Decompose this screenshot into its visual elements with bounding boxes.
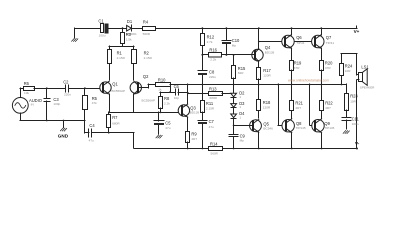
svg-text:R5: R5 [92, 96, 98, 101]
wire Q2 base to R10 [138, 84, 156, 88]
wire Q1 emitter to tail [109, 94, 111, 112]
svg-text:4R7: 4R7 [325, 106, 331, 110]
transistor Q8 TIP145 [282, 119, 306, 133]
svg-text:Q4: Q4 [265, 45, 271, 50]
capacitor C9 [229, 133, 246, 149]
wire Q6 emitter to R19 [291, 48, 293, 60]
wire R12 bottom / R16 junction [202, 46, 210, 70]
wire Q7 emitter to R20 [321, 48, 323, 60]
svg-text:R1: R1 [117, 51, 123, 56]
svg-text:47R: 47R [325, 66, 331, 70]
wire Q4 to Q6 base [259, 41, 285, 43]
svg-text:10p: 10p [174, 96, 179, 100]
resistor R4 560R [143, 19, 156, 35]
node Q5 base tap [233, 125, 235, 127]
svg-text:BD139: BD139 [265, 51, 275, 55]
wire Q8 emitter to bottom rail [291, 133, 293, 149]
svg-text:C1: C1 [98, 18, 104, 23]
wire Q2 emitter down to base line [133, 94, 135, 112]
svg-text:10R: 10R [350, 99, 356, 103]
ground (top-left, before C1) [72, 28, 78, 42]
capacitor C11 100n [342, 110, 360, 129]
wire input bottom rail [20, 110, 85, 133]
transistor Q4 BD139 [252, 45, 275, 62]
svg-text:SPEAKER: SPEAKER [360, 86, 375, 90]
svg-text:LS1: LS1 [361, 65, 369, 70]
svg-text:220u: 220u [209, 75, 216, 79]
svg-text:C2: C2 [63, 79, 69, 84]
svg-text:1.5k: 1.5k [126, 38, 132, 42]
wire R1 to Q1 collector [109, 64, 111, 80]
svg-text:1k: 1k [158, 88, 162, 92]
svg-text:100n: 100n [352, 122, 359, 126]
svg-text:R6: R6 [24, 81, 30, 86]
wire R10 to C6/R8 [160, 84, 175, 93]
svg-text:R24: R24 [345, 64, 353, 69]
svg-text:120R: 120R [263, 73, 271, 77]
resistor R3 1.5k [121, 28, 133, 44]
transistor Q9 TIP145 [312, 119, 335, 133]
wire input top line [34, 88, 65, 90]
svg-text:R9: R9 [191, 131, 197, 136]
svg-text:C8: C8 [209, 69, 215, 74]
svg-text:V-: V- [355, 141, 360, 146]
svg-text:Q6: Q6 [296, 35, 302, 40]
svg-text:BC546: BC546 [263, 127, 273, 131]
svg-text:BC556AP: BC556AP [142, 98, 156, 102]
svg-text:1: 1 [239, 116, 241, 120]
wire long mid line (output line) [170, 84, 346, 86]
wire Q6 collector to rail [291, 27, 293, 35]
svg-text:2.15R: 2.15R [206, 107, 215, 111]
resistor R17 120R [257, 68, 272, 86]
svg-text:47k: 47k [92, 101, 97, 105]
wire top rail V+ [156, 28, 357, 30]
svg-text:Q2: Q2 [143, 74, 149, 79]
resistor R24 10R [340, 54, 354, 85]
svg-text:C5: C5 [165, 120, 171, 125]
wire C1 to node A [108, 28, 127, 30]
node output line / R11 junction [202, 84, 204, 86]
svg-text:560R: 560R [211, 152, 219, 156]
resistor R19 4R7 [290, 61, 303, 86]
V+ terminal [354, 26, 360, 34]
capacitor C5 47u [154, 112, 171, 134]
wire bottom rail V- [134, 141, 360, 149]
svg-text:Q1: Q1 [112, 81, 118, 86]
wire to D2 [233, 84, 235, 93]
svg-text:BC556AP: BC556AP [112, 89, 126, 93]
resistor R23 10R [345, 84, 359, 111]
svg-text:R11: R11 [206, 101, 214, 106]
wire mid horizontal line (tail/Q3 base) [109, 112, 181, 114]
svg-text:R2: R2 [144, 51, 150, 56]
svg-text:2.2k: 2.2k [164, 102, 170, 106]
svg-text:R4: R4 [143, 19, 149, 24]
resistor R9 4R7 [186, 131, 198, 149]
capacitor C8 220u [198, 69, 216, 84]
transistor Q3 BD139 [178, 104, 199, 117]
wire R18 to Q5 collector [258, 111, 260, 118]
svg-text:2.15R: 2.15R [144, 56, 153, 60]
resistor R7 680R [107, 112, 121, 134]
node tail junction [108, 112, 110, 114]
resistor R12 2.7k [201, 27, 215, 45]
resistor R5 47k [83, 87, 98, 109]
wire R3 to R1/R2 tee [109, 44, 134, 49]
speaker LS1 [357, 65, 375, 90]
svg-text:BD139: BD139 [190, 111, 200, 115]
ground below C5 [156, 135, 162, 138]
svg-text:47u: 47u [89, 139, 94, 143]
capacitor C2 220n [63, 79, 71, 96]
svg-text:D1: D1 [127, 19, 133, 24]
transistor Q2 BC556AP [130, 74, 155, 103]
transistor Q6 TIP41 [282, 35, 305, 49]
svg-text:GND: GND [58, 134, 69, 139]
resistor R14 560R [209, 141, 223, 155]
transistor Q5 BC546 [250, 119, 274, 132]
svg-text:R14: R14 [210, 141, 218, 146]
svg-text:R13: R13 [209, 86, 217, 91]
wire diode chain to C9 [233, 125, 235, 134]
capacitor C1 100u [98, 18, 108, 37]
wire Q4 collector to rail [258, 27, 260, 49]
capacitor C10 [222, 27, 240, 56]
wire Q9 emitter to bottom rail [321, 133, 323, 149]
diode D3 [231, 101, 245, 114]
capacitor C7 47u [198, 112, 215, 149]
svg-text:47u: 47u [209, 125, 214, 129]
svg-text:2.15R: 2.15R [117, 56, 126, 60]
resistor R18 120R [257, 84, 272, 111]
svg-text:TIP41: TIP41 [326, 41, 335, 45]
resistor R21 4R7 [290, 84, 304, 119]
svg-text:Mp: Mp [232, 44, 237, 48]
wire Q7 collector to rail [320, 27, 322, 35]
transistor Q1 BC556AP [100, 81, 125, 94]
wire C2 to Q1 base [69, 88, 103, 90]
ground below C11 [343, 131, 349, 134]
svg-text:R23: R23 [350, 94, 358, 99]
svg-text:10R: 10R [345, 69, 351, 73]
svg-text:1: 1 [239, 95, 241, 99]
svg-text:C7: C7 [209, 119, 215, 124]
diode D4 [231, 111, 245, 125]
wire ground to C1 [75, 28, 100, 30]
resistor R2 2.2k [132, 50, 153, 64]
node R15 tap [233, 54, 235, 56]
svg-text:100p: 100p [53, 102, 60, 106]
svg-text:C6: C6 [174, 84, 180, 89]
svg-text:2.7k: 2.7k [207, 40, 213, 44]
resistor R1 2.2k [108, 50, 126, 64]
resistor R15 82R [232, 55, 247, 84]
resistor R20 4R7 [320, 61, 334, 86]
svg-text:Mp: Mp [240, 138, 245, 142]
svg-text:2.2k: 2.2k [210, 58, 216, 62]
svg-text:IN: IN [31, 103, 34, 107]
node Q6 base line tap [258, 41, 260, 43]
diode D2 [231, 90, 245, 104]
resistor R10 1k [156, 77, 171, 91]
svg-text:4R7: 4R7 [295, 106, 301, 110]
wire Q8 base feed [277, 84, 286, 126]
capacitor C3 100p [44, 87, 61, 120]
svg-text:47R: 47R [294, 66, 300, 70]
svg-text:www.onlinehowtomake.com: www.onlinehowtomake.com [288, 78, 329, 82]
svg-text:82R: 82R [238, 71, 244, 75]
capacitor C4 47u [85, 123, 109, 143]
svg-text:R10: R10 [158, 77, 166, 82]
svg-text:R8: R8 [164, 96, 170, 101]
svg-text:V+: V+ [354, 29, 360, 34]
svg-text:TIP41: TIP41 [296, 41, 305, 45]
svg-text:C4: C4 [89, 123, 95, 128]
svg-text:R15: R15 [238, 66, 246, 71]
wire Q6 to Q7 base [294, 41, 314, 43]
transistor Q7 TIP41 [312, 35, 335, 49]
wire R24 arch to speaker [341, 54, 359, 76]
wire Q9 base feed [309, 84, 316, 126]
svg-text:47u: 47u [165, 126, 170, 130]
svg-text:680R: 680R [210, 96, 218, 100]
svg-text:TIP145: TIP145 [296, 126, 306, 130]
resistor R11 2.2k [201, 84, 215, 113]
diode D1 1N4001 [126, 19, 142, 36]
svg-text:560R: 560R [143, 32, 151, 36]
svg-text:4R7: 4R7 [191, 137, 197, 141]
resistor R6 10k [20, 81, 35, 98]
svg-text:R12: R12 [207, 34, 215, 39]
svg-text:10k: 10k [24, 91, 29, 95]
wire R2 to Q2 collector [133, 64, 135, 80]
ground GND input [58, 121, 69, 139]
wire Q3 emitter to R9 [187, 117, 189, 132]
svg-text:120R: 120R [263, 105, 271, 109]
svg-text:220n: 220n [64, 93, 71, 97]
svg-text:Q7: Q7 [326, 35, 332, 40]
svg-text:1: 1 [239, 105, 241, 109]
wire Q5 emitter to bottom rail [258, 132, 260, 149]
wire C10 junction to Q4 base [226, 54, 252, 56]
wire speaker to V- rail [356, 80, 358, 148]
resistor R8 2.2k [159, 92, 171, 113]
wire Q3 collector up to output line [187, 84, 189, 104]
svg-text:680R: 680R [112, 121, 120, 125]
wire feedback line to bottom rail [109, 133, 134, 149]
resistor R16 2.2k [209, 47, 227, 61]
resistor R22 4R7 [320, 84, 334, 119]
node diode chain top on output line [233, 84, 235, 86]
capacitor C6 [174, 84, 188, 100]
node A junction [122, 27, 124, 29]
wire Q4 emitter to R17 [258, 62, 260, 67]
resistor R13 680R [188, 86, 234, 100]
audio source V1 [12, 98, 42, 114]
svg-text:R16: R16 [209, 47, 217, 52]
svg-text:TIP145: TIP145 [324, 126, 334, 130]
svg-text:R7: R7 [112, 115, 118, 120]
svg-text:100u: 100u [99, 34, 106, 38]
svg-text:C11: C11 [352, 117, 360, 122]
svg-text:C10: C10 [232, 38, 240, 43]
wire Q5 base from diode chain [234, 125, 253, 127]
svg-text:R3: R3 [126, 32, 132, 37]
svg-text:R17: R17 [263, 68, 271, 73]
